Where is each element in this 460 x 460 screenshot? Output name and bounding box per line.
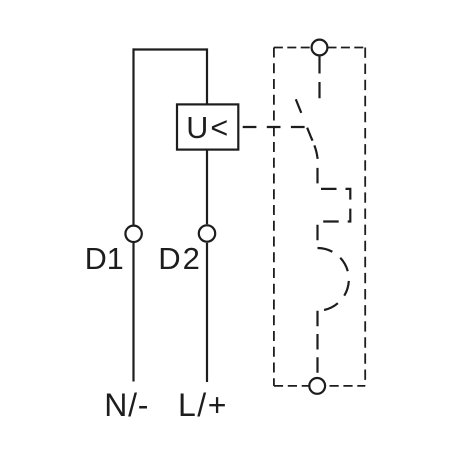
- wire right vertical middle: [206, 150, 208, 225]
- dashed trip link from U< box to breaker mechanism: [243, 126, 306, 128]
- dashed enclosure rectangle bottom edge: [274, 385, 365, 387]
- wire left vertical lower: [132, 243, 134, 382]
- dashed enclosure rectangle top edge: [274, 47, 365, 49]
- top terminal circle of breaker: [312, 40, 328, 56]
- bottom terminal circle of breaker: [309, 378, 325, 394]
- wire right vertical upper: [206, 48, 208, 104]
- breaker mechanism dashed stem with latch detour: [318, 157, 351, 248]
- breaker mechanism dashed semicircle bulge: [318, 248, 349, 311]
- breaker mechanism dashed stem to bottom terminal: [316, 311, 318, 377]
- wire right vertical lower: [206, 243, 208, 382]
- dashed enclosure rectangle right edge: [364, 48, 366, 386]
- svg-text:L/+: L/+: [178, 387, 228, 423]
- svg-text:U<: U<: [186, 111, 230, 145]
- breaker mechanism dashed stem below top terminal: [318, 57, 320, 99]
- wire top horizontal N-L bridge: [134, 48, 208, 50]
- svg-text:D1: D1: [85, 242, 124, 276]
- undervoltage release box U<: [177, 104, 238, 149]
- terminal circle D2: [199, 225, 215, 241]
- dashed enclosure rectangle left edge: [273, 48, 275, 386]
- svg-text:N/-: N/-: [104, 387, 149, 423]
- breaker moving contact blade (dashed): [295, 96, 318, 157]
- wire left vertical upper: [132, 48, 134, 224]
- svg-text:D2: D2: [158, 241, 202, 276]
- terminal circle D1: [125, 226, 141, 242]
